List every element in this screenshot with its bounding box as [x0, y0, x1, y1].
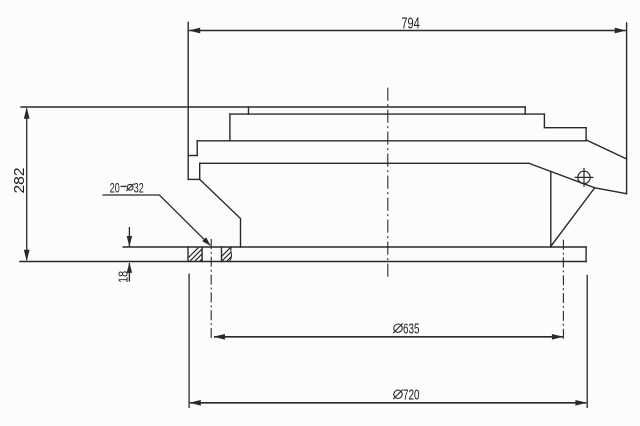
svg-text:32: 32: [134, 180, 144, 195]
svg-text:20: 20: [110, 180, 120, 195]
svg-text:720: 720: [403, 388, 420, 404]
svg-text:635: 635: [403, 322, 420, 338]
svg-text:18: 18: [115, 271, 130, 283]
svg-text:794: 794: [401, 16, 419, 33]
svg-text:282: 282: [12, 168, 28, 194]
